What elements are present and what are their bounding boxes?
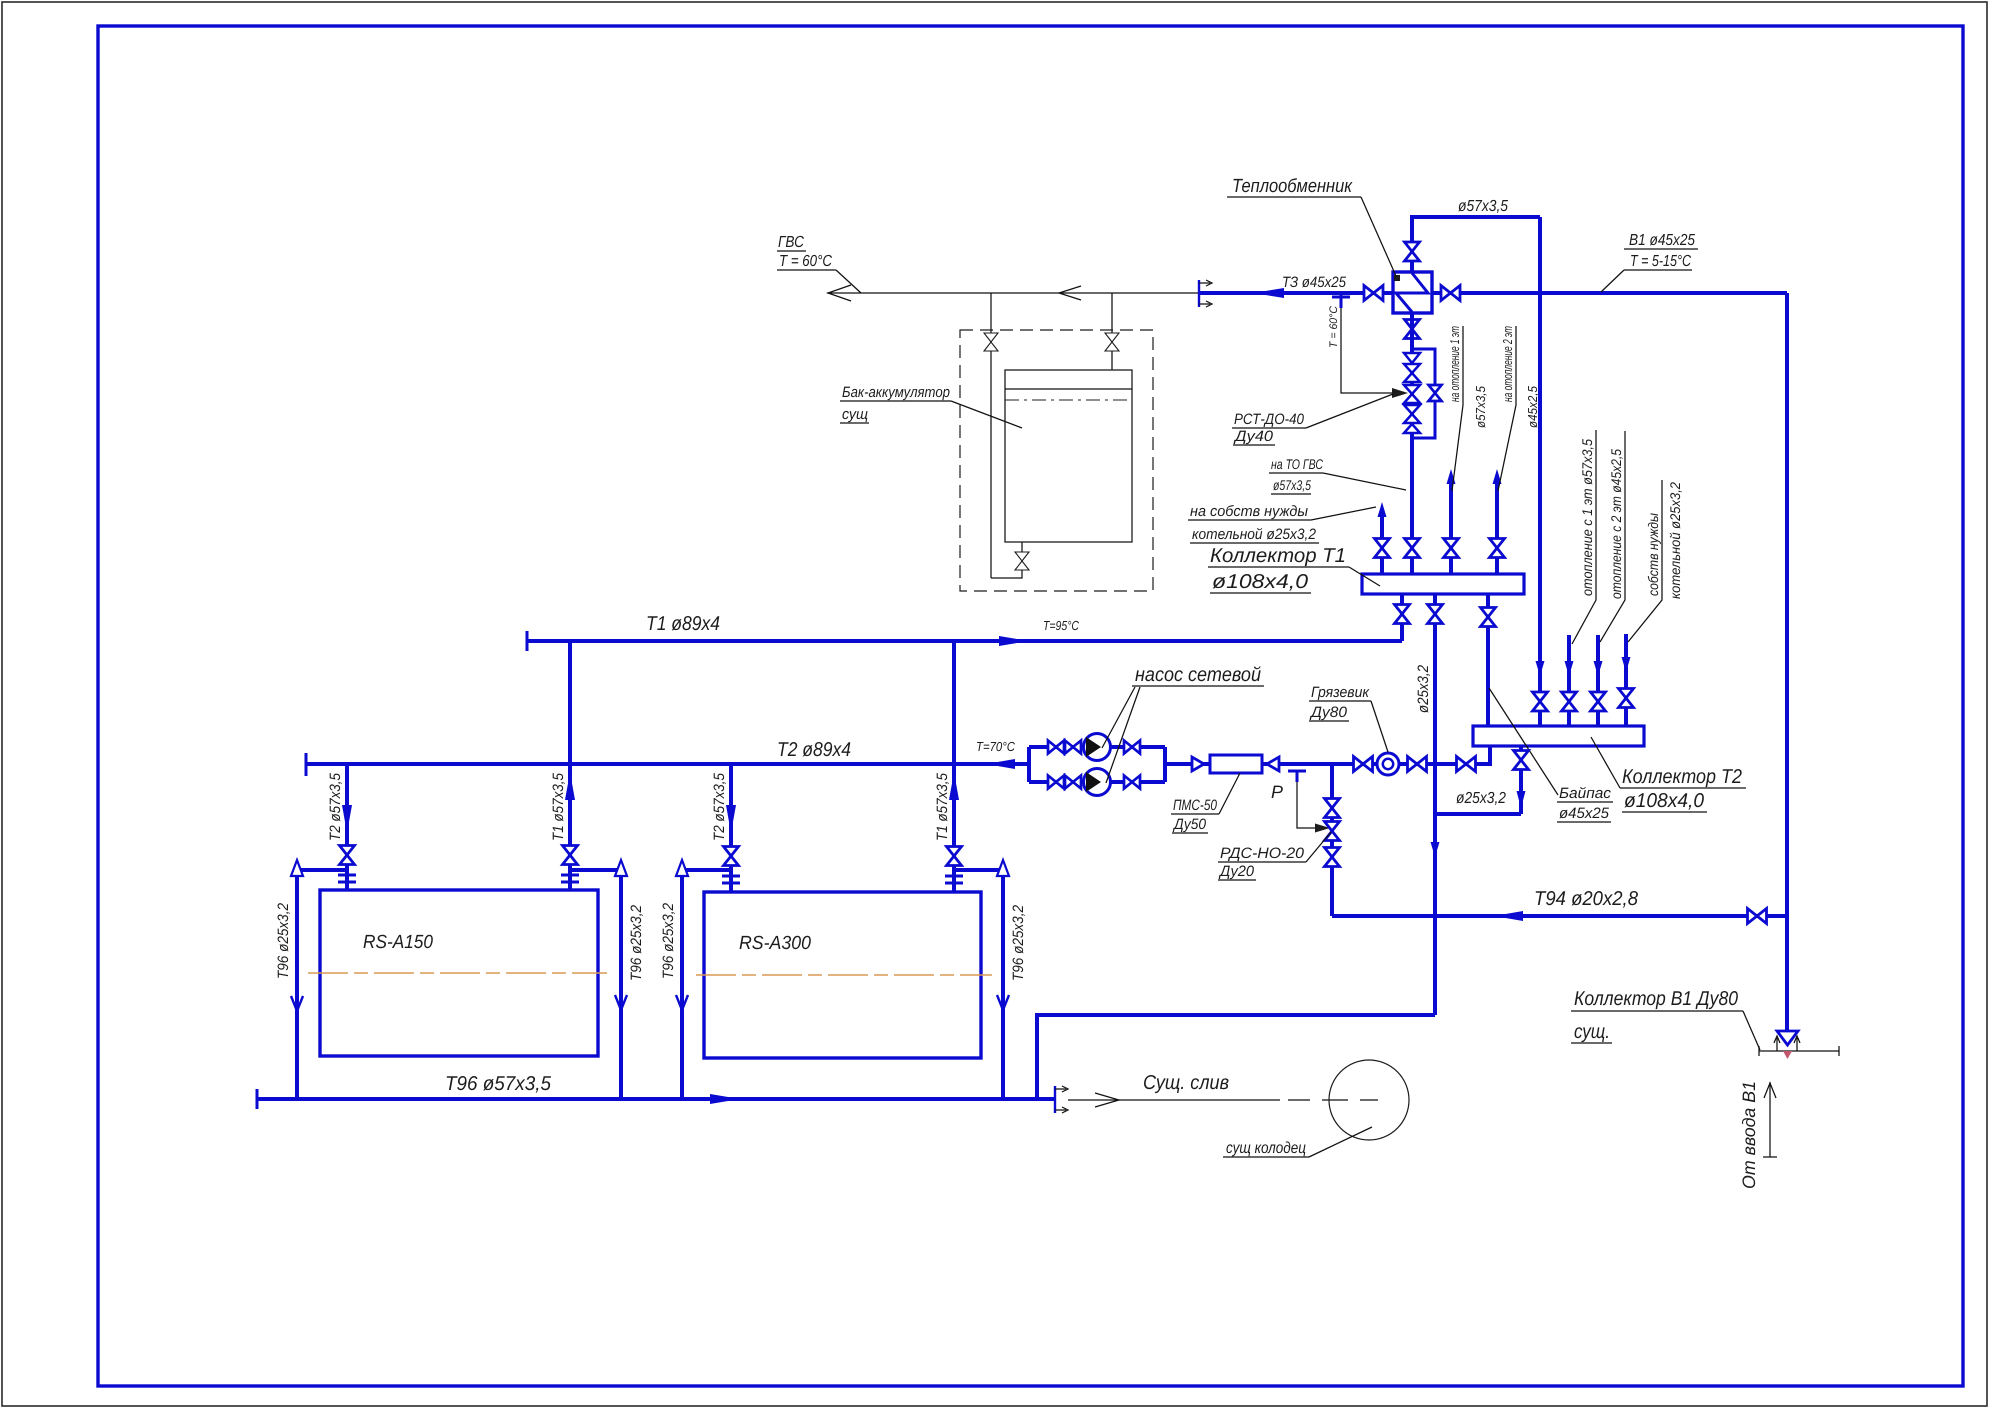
strainer Gryazevik Du80 <box>1377 753 1399 775</box>
arrow open down A300 right <box>997 995 1009 1010</box>
svg-text:Бак-аккумулятор: Бак-аккумулятор <box>842 384 950 401</box>
pipe pump top branch <box>1029 745 1165 749</box>
pipe T94 line <box>1332 914 1787 918</box>
arrow down S4 <box>1622 657 1631 672</box>
tick T2 line left end <box>305 753 308 776</box>
red mark at collector B1 <box>1783 1051 1792 1059</box>
valve on right accumulator riser <box>1105 333 1119 351</box>
svg-text:Т96 ø25х3,2: Т96 ø25х3,2 <box>1010 904 1027 981</box>
valve riser T2 A150 <box>340 846 355 865</box>
riser T1 from tank A150 <box>568 641 572 890</box>
valve pair top branch left <box>1048 741 1064 754</box>
arrow down on o57 drop <box>1536 661 1545 676</box>
well circle existing <box>1329 1060 1409 1140</box>
label Kollektor B1 Du80 <box>1571 988 1760 1050</box>
riser T2 to tank A300 <box>729 764 733 892</box>
svg-text:Грязевик: Грязевик <box>1311 684 1370 701</box>
check valve triangle left <box>1267 757 1279 771</box>
riser S3 otoplenie s 2 et to collector T2 <box>1596 635 1600 726</box>
wire riser to accumulator tank left x=991 <box>990 293 992 578</box>
arrow T3 flow big left <box>1253 288 1284 298</box>
arrow open down A150 right <box>615 995 627 1010</box>
svg-text:РСТ-ДО-40: РСТ-ДО-40 <box>1234 411 1305 428</box>
wire probe leader to RDS <box>1297 782 1318 828</box>
svg-text:ø108х4,0: ø108х4,0 <box>1212 571 1308 593</box>
arrow up R1 <box>1378 502 1387 517</box>
arrow open down A150 left <box>291 996 303 1011</box>
wire underline label S3 <box>1600 431 1625 642</box>
svg-text:Т=70°С: Т=70°С <box>976 739 1016 754</box>
arrow down riser T2 A300 <box>726 805 736 833</box>
valve D3 <box>1481 608 1496 627</box>
drop D1 collector T1 to T1 line <box>1400 594 1404 641</box>
svg-text:ø45х2,5: ø45х2,5 <box>1525 385 1540 428</box>
arrow up R4 <box>1493 469 1502 484</box>
arrow down S3 <box>1594 661 1603 676</box>
wire leader from vvod B1 with arrow <box>1763 1082 1777 1157</box>
pipe RDS branch vertical <box>1330 764 1334 916</box>
pipe RST stack vertical <box>1410 313 1414 574</box>
svg-text:Т96 ø57х3,5: Т96 ø57х3,5 <box>445 1073 552 1095</box>
pipe T96 bottom main line <box>257 1097 1055 1101</box>
pipe T2 main line left segment <box>306 762 1029 766</box>
svg-text:котельной ø25х3,2: котельной ø25х3,2 <box>1192 526 1317 543</box>
valve T3 left of heat exchanger <box>1364 286 1383 301</box>
arrow black to RST valve <box>1392 388 1408 398</box>
pipe RST bypass loop <box>1412 349 1435 438</box>
wire underline label S4 <box>1628 480 1662 642</box>
arrow left on T94 <box>1494 911 1523 921</box>
svg-text:на отопление 1 эт: на отопление 1 эт <box>1447 326 1462 402</box>
svg-text:Т1 ø57х3,5: Т1 ø57х3,5 <box>550 772 567 841</box>
check valve triangle right <box>1192 757 1204 771</box>
svg-text:на ТО ГВС: на ТО ГВС <box>1271 456 1324 472</box>
valve S3 <box>1591 692 1606 711</box>
valve below exchanger <box>1405 320 1420 339</box>
arrow open up at elbow A300 right <box>997 860 1009 876</box>
arrow black to RDS regulator <box>1315 824 1330 833</box>
arrow right on T96 <box>710 1094 740 1104</box>
valve R4 <box>1490 539 1505 558</box>
svg-text:RS-A150: RS-A150 <box>363 932 433 953</box>
label PMS-50 <box>1171 773 1240 833</box>
wire existing drain thin line <box>1068 1099 1280 1101</box>
connector bracket GVS/T3 <box>1199 280 1212 307</box>
arrow right on T1 line <box>999 636 1029 646</box>
svg-text:сущ колодец: сущ колодец <box>1226 1140 1306 1157</box>
arrow open up at elbow A150 right <box>615 860 627 876</box>
valve riser T2 A300 <box>724 847 739 866</box>
label nasos setevoy <box>1102 664 1264 783</box>
pipe B1 riser vertical right <box>1785 293 1789 1037</box>
pipe o25 horizontal link <box>1435 812 1521 816</box>
pipe riser above exchanger to o57 loop <box>1412 217 1540 272</box>
pipe o57 vertical drop to collector T2 <box>1538 217 1542 726</box>
svg-text:Т96 ø25х3,2: Т96 ø25х3,2 <box>660 902 677 979</box>
svg-text:на собств нужды: на собств нужды <box>1190 503 1308 520</box>
label B1 pipe <box>1601 232 1698 292</box>
label na TO GVS <box>1269 456 1406 494</box>
valve RDS top <box>1325 799 1340 818</box>
wire leader line R4 label <box>1498 326 1516 491</box>
riser T2 to tank A150 <box>345 764 349 890</box>
arrow open down A300 left <box>676 995 688 1010</box>
tank bottom outlet pipe <box>991 542 1022 578</box>
valve S2 <box>1562 692 1577 711</box>
riser T1 from tank A300 <box>952 641 956 892</box>
svg-text:Т2 ø89х4: Т2 ø89х4 <box>777 739 851 761</box>
pipe drain link to D2 vertical <box>1037 1015 1435 1099</box>
svg-text:Т = 60°С: Т = 60°С <box>1328 306 1340 348</box>
svg-text:отопление с 2 эт ø45х2,5: отопление с 2 эт ø45х2,5 <box>1608 449 1624 599</box>
valve after strainer <box>1408 757 1427 772</box>
arrow up R3 <box>1447 469 1456 484</box>
pipe pump bottom branch <box>1029 780 1165 784</box>
label Bak-akkumulator <box>840 384 1022 428</box>
device PMS-50 body <box>1210 755 1262 773</box>
flange riser T1 A300 <box>945 876 963 883</box>
svg-text:ø57х3,5: ø57х3,5 <box>1473 385 1488 428</box>
pressure probe P on T2 <box>1288 771 1306 782</box>
valve on drop <box>1514 751 1529 770</box>
svg-text:Ду20: Ду20 <box>1218 863 1255 880</box>
svg-text:Ду80: Ду80 <box>1309 704 1348 721</box>
svg-text:Р: Р <box>1271 782 1283 802</box>
valve riser T1 A300 <box>947 847 962 866</box>
label sush kolodec <box>1223 1127 1372 1157</box>
label GVS (hot water supply) <box>777 234 861 293</box>
valve R2 on TO GVS riser <box>1405 539 1420 558</box>
pipe T3/B1 main horizontal <box>1199 291 1787 295</box>
tank RS-A300 body <box>704 892 981 1058</box>
tank water level dash-dot line <box>1005 399 1132 401</box>
arrow GVS mid open arrow <box>1059 286 1081 300</box>
valve on tank bottom outlet <box>1015 552 1029 570</box>
arrow down riser T2 A150 <box>342 805 352 833</box>
pipe T2 after pumps <box>1165 762 1490 766</box>
arrow up riser T1 A150 <box>565 772 575 800</box>
svg-text:Т1 ø57х3,5: Т1 ø57х3,5 <box>934 772 951 841</box>
valve on T94 right <box>1748 909 1767 924</box>
valve riser T1 A150 <box>563 846 578 865</box>
connection marks on collector B1 <box>1774 1036 1800 1051</box>
svg-text:Теплообменник: Теплообменник <box>1232 176 1353 197</box>
svg-text:ø108х4,0: ø108х4,0 <box>1624 790 1704 812</box>
drop D2 long vertical to T96 <box>1433 594 1437 1015</box>
arrow open right on drain <box>1095 1093 1119 1107</box>
riser R3 otoplenie 1 et above collector T1 <box>1449 483 1453 574</box>
svg-text:Т1 ø89х4: Т1 ø89х4 <box>646 613 720 635</box>
svg-text:Т = 60°С: Т = 60°С <box>779 253 832 270</box>
svg-text:Т = 5-15°С: Т = 5-15°С <box>1630 253 1691 270</box>
tank top band line <box>1005 388 1132 390</box>
valve bottom branch right <box>1124 776 1140 789</box>
svg-text:ПМС-50: ПМС-50 <box>1173 797 1218 814</box>
label Gryazevik Du80 <box>1309 684 1388 752</box>
svg-text:ø25х3,2: ø25х3,2 <box>1415 664 1432 713</box>
label Baypas o45x2,5 <box>1489 688 1613 822</box>
svg-text:ø57х3,5: ø57х3,5 <box>1458 198 1508 215</box>
svg-text:Ду50: Ду50 <box>1172 816 1206 833</box>
collector T2 body <box>1473 726 1644 746</box>
label Kollektor T2 <box>1591 737 1746 812</box>
wire riser to accumulator tank right x=1112 <box>1111 293 1113 370</box>
flange riser T2 A150 <box>338 875 356 882</box>
svg-text:Байпас: Байпас <box>1559 785 1612 802</box>
pipe T1 main line <box>527 639 1402 643</box>
dashed enclosure of accumulator tank <box>960 330 1153 591</box>
svg-text:ø57х3,5: ø57х3,5 <box>1273 477 1311 493</box>
riser S4 sobstv nuzhdy to collector T2 <box>1624 634 1628 726</box>
drop below collector T2 x=1521 <box>1519 746 1523 814</box>
svg-text:котельной ø25х3,2: котельной ø25х3,2 <box>1667 482 1683 599</box>
tick T96 left end <box>256 1089 259 1109</box>
riser S2 otoplenie s 1 et to collector T2 <box>1567 635 1571 726</box>
tick T1 line left end <box>526 631 529 651</box>
valve T3 right of heat exchanger <box>1441 286 1460 301</box>
svg-text:РДС-НО-20: РДС-НО-20 <box>1220 845 1305 862</box>
arrow open up at elbow A150 left <box>291 860 303 876</box>
label Kollektor T1 <box>1208 545 1380 593</box>
arrow up riser T1 A300 <box>949 772 959 800</box>
pump group frame verticals <box>1029 747 1165 782</box>
svg-text:RS-A300: RS-A300 <box>739 933 811 954</box>
svg-text:Т94 ø20х2,8: Т94 ø20х2,8 <box>1534 888 1638 910</box>
tank RS-A150 body <box>320 890 598 1056</box>
svg-text:Т2 ø57х3,5: Т2 ø57х3,5 <box>711 772 728 841</box>
valve R3 <box>1444 539 1459 558</box>
valve pair bottom branch left <box>1048 776 1064 789</box>
svg-text:отопление с 1 эт ø57х3,5: отопление с 1 эт ø57х3,5 <box>1579 439 1595 596</box>
riser R1 sobstv nuzhdy above collector T1 <box>1380 515 1384 574</box>
svg-text:В1 ø45х25: В1 ø45х25 <box>1629 232 1695 249</box>
label Teploobmennik <box>1227 176 1396 276</box>
svg-text:Коллектор Т1: Коллектор Т1 <box>1210 545 1346 567</box>
flange riser T2 A300 <box>722 876 740 883</box>
pipe T96 outer left A300 <box>682 870 731 1099</box>
svg-text:собств нужды: собств нужды <box>1645 512 1661 596</box>
wire drain dash-dot to well <box>1288 1099 1378 1101</box>
valve on left accumulator riser <box>984 333 998 351</box>
arrow GVS left open arrow <box>828 285 851 301</box>
svg-text:ø45х25: ø45х25 <box>1559 805 1610 822</box>
wire GVS outlet thin pipe <box>827 292 1199 294</box>
svg-text:сущ: сущ <box>842 406 868 423</box>
valve D2 <box>1428 605 1443 624</box>
leader terminator dot on exchanger <box>1394 275 1400 281</box>
valve top branch right <box>1124 741 1140 754</box>
label na sobstv nuzhdy kotelnoy <box>1188 503 1376 543</box>
tank RS-A300 level dash-dot line <box>696 974 992 976</box>
wire thermo leader to RST regulator <box>1341 308 1395 393</box>
riser R4 otoplenie 2 et above collector T1 <box>1495 483 1499 574</box>
pipe elbow T2 up to collector T2 <box>1488 746 1492 766</box>
pump P2 bottom <box>1084 769 1111 796</box>
valve o57 drop above collector T2 <box>1533 692 1548 711</box>
arrow down on D2 <box>1431 842 1440 857</box>
pipe T96 outer right A150 <box>570 870 621 1099</box>
valve RDS bottom <box>1325 848 1340 867</box>
valve D1 <box>1395 605 1410 624</box>
svg-text:на отопление 2 эт: на отопление 2 эт <box>1500 326 1515 402</box>
svg-text:ГВС: ГВС <box>778 234 804 251</box>
tank RS-A150 level dash-dot line <box>308 972 607 974</box>
collector B1 existing line <box>1759 1046 1839 1056</box>
collector T1 body <box>1362 574 1524 594</box>
svg-text:Т2 ø57х3,5: Т2 ø57х3,5 <box>327 772 344 841</box>
valve before strainer <box>1354 757 1373 772</box>
svg-text:Коллектор Т2: Коллектор Т2 <box>1622 766 1742 788</box>
svg-text:сущ.: сущ. <box>1574 1021 1610 1043</box>
svg-text:Т96 ø25х3,2: Т96 ø25х3,2 <box>275 902 292 979</box>
valve RST bypass <box>1429 385 1442 401</box>
pump P1 top <box>1084 734 1111 761</box>
regulator RST-DO-40 valve stack <box>1404 353 1420 433</box>
accumulator tank body <box>1005 370 1132 542</box>
flange riser T1 A150 <box>561 875 579 882</box>
heat exchanger U1 body <box>1393 272 1432 313</box>
arrow open up at elbow A300 left <box>676 860 688 876</box>
valve T2 before collector riser <box>1457 757 1476 772</box>
svg-text:насос сетевой: насос сетевой <box>1135 664 1261 686</box>
svg-text:Ду40: Ду40 <box>1233 428 1274 445</box>
svg-text:ТЗ ø45х25: ТЗ ø45х25 <box>1282 274 1347 291</box>
valve S4 <box>1619 689 1634 708</box>
svg-text:От ввода В1: От ввода В1 <box>1739 1081 1759 1189</box>
valve R1 <box>1375 539 1390 558</box>
svg-text:Сущ. слив: Сущ. слив <box>1143 1072 1229 1094</box>
arrow down on drop <box>1517 791 1526 808</box>
pipe T96 outer left A150 <box>297 870 347 1099</box>
pipe T96 outer right A300 <box>954 870 1003 1099</box>
connector bracket T96 end <box>1055 1086 1068 1113</box>
wire underline label S2 <box>1572 430 1596 644</box>
drop D3 bypass to collector T2 <box>1486 594 1490 726</box>
valve above exchanger <box>1405 242 1420 261</box>
label RDS-NO-20 <box>1218 832 1331 880</box>
wire leader line R3 label <box>1452 326 1463 491</box>
svg-text:Коллектор В1 Ду80: Коллектор В1 Ду80 <box>1574 988 1738 1010</box>
arrow down S2 <box>1565 661 1574 676</box>
svg-text:Т96 ø25х3,2: Т96 ø25х3,2 <box>628 904 645 981</box>
label RST-DO-40 <box>1232 394 1393 445</box>
arrow left on T2 line <box>986 759 1015 769</box>
svg-text:Т=95°С: Т=95°С <box>1043 618 1079 633</box>
regulator RDS-NO-20 <box>1325 822 1340 841</box>
collector B1 inlet triangle <box>1777 1031 1798 1045</box>
thermo probe T=60 on T3 <box>1332 295 1350 308</box>
svg-text:ø25х3,2: ø25х3,2 <box>1456 790 1506 807</box>
